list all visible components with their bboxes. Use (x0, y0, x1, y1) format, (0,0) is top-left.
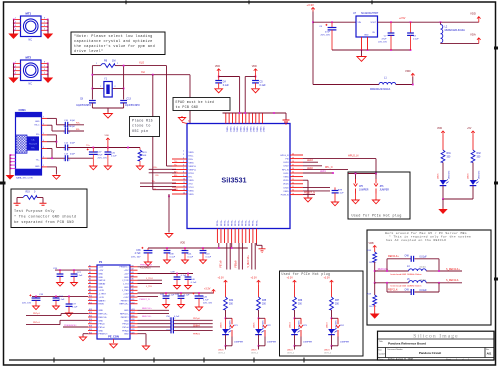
svg-text:2: 2 (43, 157, 44, 159)
U1 right pin stubs (290, 154, 303, 156)
svg-text:MT1: MT1 (26, 12, 32, 16)
svg-text:VSS5: VSS5 (189, 162, 195, 164)
wire LED cathode down (258, 335, 260, 346)
ground hook right in test box (42, 198, 44, 204)
svg-text:B13: B13 (89, 309, 92, 311)
IC U1 SiI3531 body (187, 124, 290, 229)
jumper JP4 branch (332, 317, 339, 319)
wire MT2 left pins to ground (13, 64, 15, 78)
svg-text:B7: B7 (89, 285, 91, 287)
svg-text:S_REFCLK+: S_REFCLK+ (446, 268, 460, 271)
svg-text:2: 2 (175, 318, 176, 320)
svg-text:PRESENCE: PRESENCE (140, 265, 153, 267)
svg-text:GND: GND (124, 287, 129, 289)
wire VDD branch to chip bus at x=245.2 (245, 76, 255, 78)
note box - crystal selection (71, 32, 165, 55)
capacitor C40 (187, 274, 189, 277)
ground C34 (53, 305, 60, 310)
wire +3.3V to resistor JP1 (225, 284, 227, 297)
capacitor C6 (331, 22, 333, 27)
svg-text:+3.3V: +3.3V (123, 297, 129, 299)
svg-text:LW150C: LW150C (449, 170, 451, 179)
svg-text:47pF: 47pF (70, 143, 76, 145)
ground C47 (90, 165, 97, 170)
capacitor C43 (202, 248, 204, 250)
svg-text:VSS5: VSS5 (283, 177, 289, 179)
capacitor C44 (165, 293, 167, 296)
svg-text:PET0+: PET0+ (249, 219, 251, 226)
ground U1 right (304, 197, 312, 202)
svg-text:EPAD must be tied: EPAD must be tied (176, 100, 215, 104)
svg-text:REFCLK+: REFCLK+ (119, 304, 129, 306)
svg-text:4.7uF: 4.7uF (203, 300, 209, 302)
svg-text:PET0+: PET0+ (256, 219, 258, 226)
wire resistor to LED node (294, 310, 296, 318)
svg-text:20%, 16V: 20%, 16V (378, 42, 387, 44)
svg-text:capacitance crystal and optimi: capacitance crystal and optimize (74, 39, 153, 44)
svg-text:39: 39 (292, 157, 294, 159)
svg-text:VSS5: VSS5 (189, 190, 195, 192)
svg-text:0805: 0805 (420, 278, 427, 281)
svg-text:6: 6 (183, 165, 184, 167)
svg-text:VDD5: VDD5 (283, 180, 289, 182)
svg-text:LED3: LED3 (327, 322, 329, 328)
power port VDD right (477, 17, 481, 23)
svg-text:Friday, August 11, 2006: Friday, August 11, 2006 (388, 358, 414, 361)
wire U1 bottom-left pin to ground (168, 195, 170, 197)
note box - place R15 close to OSC pin (130, 117, 160, 137)
svg-text:VDDC: VDDC (262, 127, 264, 133)
MT1 left pins (14, 19, 21, 21)
svg-text:LED4: LED4 (287, 350, 293, 352)
svg-text:B18: B18 (89, 326, 92, 328)
svg-text:3: 3 (43, 147, 44, 149)
svg-text:PETn0: PETn0 (122, 327, 129, 329)
note box - test purpose only (11, 189, 87, 228)
svg-text:LED5: LED5 (254, 322, 256, 328)
svg-text:+3.3V: +3.3V (99, 297, 105, 299)
U1 pin1 ground top-left (178, 116, 185, 121)
svg-text:HPLG_N: HPLG_N (348, 153, 359, 157)
ground C45 (195, 306, 202, 311)
ground C43 (200, 259, 207, 264)
svg-text:PET0+: PET0+ (217, 219, 219, 226)
resistor R34 200 (224, 297, 228, 310)
svg-text:VDDC: VDDC (252, 127, 254, 133)
CON1 bottom shield bar (16, 169, 41, 175)
svg-text:+5V: +5V (467, 127, 472, 130)
svg-text:47uF: 47uF (98, 155, 104, 157)
wire node to LED LED5 (258, 318, 260, 329)
jumper JP5 (355, 174, 357, 180)
resistor R36 200 (293, 297, 297, 310)
svg-text:33: 33 (292, 179, 294, 181)
svg-text:1: 1 (96, 63, 97, 65)
svg-text:Used for PCIe Hot plug: Used for PCIe Hot plug (282, 272, 331, 276)
svg-text:47uF: 47uF (325, 32, 331, 34)
svg-text:RX-: RX- (174, 175, 178, 177)
svg-text:PERST#: PERST# (121, 317, 130, 319)
svg-text:PERST#: PERST# (121, 300, 130, 302)
CON1 header bar (16, 113, 41, 117)
title block frame (378, 331, 495, 360)
svg-text:OUT 1-2: OUT 1-2 (218, 353, 225, 355)
wire U1 bottom right to ground (256, 243, 258, 245)
resistor R35 200 (257, 297, 261, 310)
svg-text:PETn1: PETn1 (33, 322, 40, 324)
wire PERST_N (303, 186, 330, 188)
U7 ON/OFF pin (367, 37, 369, 50)
wire +3.3V vertical (312, 12, 314, 85)
svg-text:A13: A13 (132, 308, 135, 311)
svg-text:GND: GND (124, 334, 129, 336)
wire CON1 pin7 gnd (47, 117, 56, 119)
svg-text:Date:: Date: (379, 358, 384, 361)
power port VDA (477, 38, 481, 44)
svg-text:Size: Size (378, 350, 382, 352)
wire REFCLK- vertical joints (386, 283, 388, 292)
wire crystal right branch (123, 66, 125, 100)
title block doc row (378, 347, 495, 349)
svg-text:OUT 1-2: OUT 1-2 (324, 353, 331, 355)
svg-text:VDD: VDD (437, 127, 442, 130)
svg-text:B17: B17 (89, 322, 92, 324)
resistor R74 (139, 148, 141, 151)
capacitor C50 series PETp0 (138, 319, 172, 321)
svg-text:Custom: Custom (379, 353, 386, 356)
jumper JP1 branch (226, 317, 233, 319)
svg-text:VDD: VDD (180, 242, 185, 245)
svg-text:PERST_N: PERST_N (140, 299, 151, 301)
svg-text:VDD: VDD (105, 135, 110, 137)
svg-text:B6: B6 (89, 282, 91, 284)
svg-text:8: 8 (44, 18, 45, 20)
wire MT1 right pins to ground (47, 20, 49, 34)
wire LED common (443, 198, 473, 200)
svg-text:J_TDI: J_TDI (146, 286, 152, 288)
svg-text:RX-: RX- (156, 175, 160, 177)
svg-text:0.1uF: 0.1uF (191, 282, 197, 284)
svg-text:XLI: XLI (141, 70, 145, 74)
svg-text:REFCLK-: REFCLK- (388, 289, 398, 292)
wire C12 output (68, 147, 94, 149)
svg-text:J_TOR: J_TOR (122, 280, 129, 282)
capacitor C49 (411, 289, 413, 295)
jumper JP3 branch (295, 317, 302, 319)
wire VDD to R31 (442, 135, 444, 150)
svg-text:0.1uF: 0.1uF (260, 84, 267, 87)
svg-text:Pandora Reference Board: Pandora Reference Board (388, 341, 426, 345)
wire PCIW row (303, 194, 315, 196)
svg-text:VDD: VDD (215, 65, 220, 68)
svg-text:RX+: RX+ (76, 123, 81, 125)
svg-text:B11: B11 (89, 299, 92, 301)
svg-text:A20: A20 (132, 331, 135, 334)
svg-text:R19: R19 (26, 192, 31, 194)
wire U1 pin to ground (right) (303, 179, 308, 181)
svg-text:0805: 0805 (420, 266, 427, 269)
svg-text:37: 37 (292, 165, 294, 167)
ground MT1 right (43, 34, 53, 40)
wire CON1 case pins to ground (9, 155, 11, 174)
svg-text:20%, 16V: 20%, 16V (131, 256, 141, 258)
svg-text:0.1uF: 0.1uF (170, 257, 176, 259)
wire RPL_N to hot plug box (303, 168, 348, 170)
svg-text:3: 3 (15, 25, 16, 27)
svg-text:LED5: LED5 (438, 173, 440, 179)
svg-text:5: 5 (183, 161, 184, 163)
wire into jumper box (348, 173, 376, 175)
svg-text:B9: B9 (89, 292, 91, 294)
svg-text:Rev: Rev (486, 349, 489, 351)
wire crystal left branch (91, 75, 93, 100)
wire +3.3V rail P1 (138, 292, 214, 294)
capacitor C39 (176, 274, 178, 277)
ground C37 (66, 312, 73, 317)
svg-text:JUMPER: JUMPER (303, 342, 312, 344)
svg-text:2: 2 (69, 149, 70, 151)
capacitor C34 (55, 296, 57, 297)
svg-text:ferrite bead 0603 100MHz 30ohm: ferrite bead 0603 100MHz 30ohm (391, 284, 422, 287)
svg-text:1M: 1M (112, 60, 115, 63)
svg-text:LED6: LED6 (221, 322, 223, 328)
resistor R32 (471, 150, 475, 163)
inductor L1 (379, 82, 396, 84)
net label REFCLK+ P1 (138, 309, 170, 311)
svg-text:VSS5: VSS5 (189, 194, 195, 196)
wire to LED ground (442, 199, 444, 208)
svg-text:6: 6 (43, 124, 44, 126)
LED LED5 (440, 179, 449, 185)
svg-text:Pandora Circuit: Pandora Circuit (419, 351, 441, 355)
border zone tick right (494, 47, 498, 50)
CON1 right pin stubs (42, 117, 48, 119)
svg-text:B20: B20 (89, 332, 92, 334)
wire CON1 rows to coupling caps (47, 124, 52, 126)
svg-text:PRSNT1#: PRSNT1# (119, 267, 129, 269)
svg-text:+3.3V: +3.3V (307, 3, 315, 7)
ground MT2 left (8, 78, 18, 84)
svg-text:A1: A1 (132, 264, 134, 267)
wire P1 left row2 with caps (32, 295, 88, 297)
net label LED4 (294, 346, 296, 350)
capacitor C45 (bulk) (198, 293, 200, 296)
svg-text:TX+: TX+ (86, 145, 91, 147)
svg-text:REFCLK+: REFCLK+ (388, 255, 399, 258)
svg-text:LED3: LED3 (324, 350, 330, 352)
note box - used for PCIe hot plug (LEDs) (280, 271, 364, 356)
svg-text:VDDC: VDDC (239, 127, 241, 133)
svg-text:TX-: TX- (174, 164, 177, 166)
svg-text:3: 3 (15, 69, 16, 71)
LED LED6 (470, 179, 479, 185)
capacitor C47 (87, 148, 98, 154)
svg-text:100 1%: 100 1% (369, 306, 376, 308)
wire VDD rail below U1 (148, 247, 248, 249)
svg-text:LED0: LED0 (283, 187, 289, 189)
svg-text:A3: A3 (132, 271, 134, 274)
svg-text:Used for PCIe Hot plug: Used for PCIe Hot plug (352, 214, 402, 218)
wire VDD to C4 (218, 73, 220, 80)
svg-text:0.1uF: 0.1uF (59, 299, 65, 301)
svg-text:OSC pin: OSC pin (132, 129, 148, 134)
svg-text:+2.5V: +2.5V (399, 17, 406, 20)
net label J_TDI (138, 283, 163, 285)
svg-text:NC: NC (29, 83, 33, 86)
LED D3 (291, 328, 300, 334)
svg-text:RTN1: RTN1 (189, 173, 195, 175)
capacitor C31 (105, 152, 112, 154)
svg-text:A8: A8 (132, 288, 134, 291)
svg-text:7: 7 (183, 168, 184, 170)
wire LED6 cathode (472, 186, 474, 199)
svg-text:the capacitor's value for ppm: the capacitor's value for ppm and (74, 44, 155, 49)
wire +12V row with caps (138, 273, 194, 275)
svg-text:S_REFCLK-: S_REFCLK- (446, 279, 459, 282)
net label LED3 (303, 161, 318, 163)
svg-text:+3.3V: +3.3V (218, 277, 225, 280)
svg-text:+3.3V: +3.3V (99, 290, 105, 292)
wire REFCLK+ node down (374, 282, 376, 284)
svg-text:5: 5 (44, 29, 45, 31)
ground C38 (164, 259, 171, 264)
svg-text:P1: P1 (99, 260, 103, 264)
svg-text:0.1uF: 0.1uF (174, 316, 180, 318)
capacitor C12 (AC coupling) (65, 145, 67, 151)
svg-text:PET0+: PET0+ (228, 219, 230, 226)
svg-text:C48: C48 (405, 255, 410, 257)
svg-text:* The connector GND should: * The connector GND should (14, 214, 76, 219)
wire LED cathode down (225, 335, 227, 346)
CON1 left pins (case) (10, 154, 16, 156)
svg-text:PET0+: PET0+ (231, 219, 233, 226)
wire crystal bottom (91, 103, 93, 108)
wire LED0 row (303, 190, 330, 192)
svg-text:to PCB GND: to PCB GND (176, 105, 199, 109)
capacitor C36 (bulk) (147, 248, 149, 250)
svg-text:XLO: XLO (139, 61, 144, 65)
svg-text:PET0+: PET0+ (242, 219, 244, 226)
wire +3.3V to resistor JP4 (331, 284, 333, 297)
wire L1 to VDD port (396, 84, 413, 86)
svg-text:0.1uF: 0.1uF (188, 257, 194, 259)
svg-text:GND: GND (364, 35, 369, 37)
svg-text:6: 6 (44, 25, 45, 27)
svg-text:0.1uF: 0.1uF (413, 39, 419, 41)
svg-text:1: 1 (43, 165, 44, 167)
svg-text:A12: A12 (132, 301, 135, 304)
svg-text:RTL: RTL (31, 148, 35, 150)
svg-text:34: 34 (292, 175, 294, 177)
svg-text:10: 10 (183, 179, 185, 181)
svg-text:GND: GND (99, 277, 104, 279)
border zone tick left (0, 182, 6, 185)
svg-text:LED3: LED3 (283, 162, 289, 164)
svg-text:MT2: MT2 (26, 56, 32, 60)
ground C32 (331, 201, 338, 206)
wire L5 out (S_REFCLK-) (426, 282, 439, 284)
svg-text:JUMPER: JUMPER (340, 342, 349, 344)
svg-text:LED5: LED5 (251, 350, 257, 352)
svg-text:SATA_SIG_CON: SATA_SIG_CON (16, 176, 33, 179)
wire L4 out (S_REFCLK+) (426, 270, 439, 272)
wire +5V to R32 (472, 135, 474, 150)
svg-text:+12V: +12V (124, 270, 129, 272)
wire node to LED LED4 (294, 318, 296, 329)
wire PETn1 into P1 (26, 324, 60, 326)
wire R18 to ground (374, 305, 376, 313)
border zone ticks bottom (53, 358, 55, 363)
capacitor C48 (411, 256, 413, 262)
ground C4 (215, 88, 223, 92)
svg-text:Test Purpose Only: Test Purpose Only (14, 209, 55, 214)
svg-text:J_TDI: J_TDI (123, 284, 129, 286)
svg-text:LED1: LED1 (320, 171, 326, 173)
MT2 left pins (14, 63, 21, 65)
ground C36 (144, 261, 151, 266)
ground C5 (252, 88, 260, 92)
svg-text:0.01uF: 0.01uF (420, 257, 428, 259)
LED D4 (328, 328, 337, 334)
svg-text:2: 2 (15, 21, 16, 23)
wire C48 to corner (414, 258, 439, 260)
svg-text:38: 38 (292, 161, 294, 163)
svg-text:0.1uF: 0.1uF (184, 295, 190, 297)
wire C10 output (68, 124, 84, 126)
regulator U7 (356, 16, 378, 37)
wire XTALI branch to U1 left pin (152, 75, 154, 190)
svg-text:+12V: +12V (99, 267, 104, 269)
svg-text:R37: R37 (335, 300, 340, 302)
svg-text:SMDAT: SMDAT (99, 283, 107, 286)
svg-text:XTLI: XTLI (189, 183, 194, 185)
svg-text:11: 11 (183, 182, 185, 184)
svg-text:GND: GND (99, 310, 104, 312)
svg-text:GND: GND (35, 166, 40, 168)
svg-text:LW150C: LW150C (479, 170, 481, 179)
svg-text:3: 3 (183, 154, 184, 156)
svg-text:32: 32 (292, 183, 294, 185)
svg-text:VDD5: VDD5 (283, 184, 289, 186)
wire node to LED LED6 (225, 318, 227, 329)
LED D2 (255, 328, 264, 334)
svg-text:0.1uF: 0.1uF (72, 307, 78, 309)
svg-text:ferrite bead 0603 100MHz 30ohm: ferrite bead 0603 100MHz 30ohm (391, 273, 422, 276)
svg-text:Sheet: Sheet (446, 358, 451, 361)
wire LED5 cathode (442, 186, 444, 199)
svg-text:A9: A9 (132, 291, 134, 294)
capacitor C4 (215, 81, 222, 83)
svg-text:0.1uF: 0.1uF (223, 84, 230, 87)
wire resistor to LED node (258, 310, 260, 318)
wire C49 to corner (414, 291, 439, 293)
resistor R37 200 (330, 297, 334, 310)
svg-text:PRSNT2#: PRSNT2# (99, 334, 109, 336)
inductor L4 (375, 270, 409, 272)
svg-text:2: 2 (15, 65, 16, 67)
wire XTALO to chip (124, 65, 167, 67)
capacitor C51 series PETn0 (138, 323, 172, 325)
wire +3.3V bottom rail (313, 84, 379, 86)
svg-text:PETp0: PETp0 (122, 324, 129, 326)
svg-text:PERp0: PERp0 (235, 260, 238, 268)
svg-text:B15: B15 (89, 316, 92, 318)
svg-text:VDA: VDA (470, 33, 476, 37)
note box - EPAD must be tied to PCB GND (173, 98, 230, 111)
svg-text:13: 13 (183, 189, 185, 191)
svg-text:PETp0: PETp0 (99, 324, 106, 326)
svg-text:REFCLK-: REFCLK- (120, 314, 129, 316)
